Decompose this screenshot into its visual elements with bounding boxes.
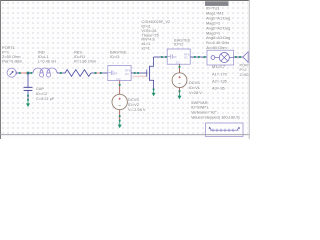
- junction node A: [27, 72, 30, 75]
- svg-text:V=28 V: V=28 V: [189, 90, 202, 95]
- biastee I2 label: [174, 37, 191, 46]
- port P2 symbol: [243, 52, 248, 63]
- svg-text:DC: DC: [184, 56, 188, 60]
- node tuner TU1 pin 2: [235, 56, 237, 58]
- wire biastee I3 DC to DCVS V2: [119, 81, 121, 95]
- svg-text:A1=-170: A1=-170: [212, 71, 228, 76]
- node DCVS V2 b: [119, 120, 121, 122]
- biastee I3 body: [108, 66, 131, 81]
- svg-text:RF: RF: [114, 71, 118, 75]
- biastee I2 body: [167, 49, 190, 64]
- svg-text:RF: RF: [173, 55, 177, 59]
- port P1 label: [2, 45, 22, 64]
- capacitor C2: [24, 87, 33, 90]
- node capacitor C2 a: [27, 95, 29, 97]
- transistor U1 label: [141, 19, 170, 50]
- resistor R1 label: [74, 49, 96, 63]
- svg-text:V=-2.98 V: V=-2.98 V: [128, 107, 146, 112]
- transistor U1 CGH40025F: [147, 57, 154, 90]
- sweep SWPVAR icon: [206, 123, 244, 137]
- node biastee I2 DC pin: [179, 66, 181, 68]
- variable list M1 A1 A2 A3: [212, 64, 228, 90]
- svg-text:ID=I2: ID=I2: [174, 41, 183, 46]
- node tuner wire: [198, 56, 200, 58]
- capacitor C2 label: [36, 86, 55, 101]
- wire resistor to biastee I3: [91, 72, 108, 74]
- svg-text:DC: DC: [125, 72, 129, 76]
- source DCVS V1: [172, 73, 187, 88]
- port P1 symbol: [7, 68, 16, 77]
- svg-text:Z=50 Ohm: Z=50 Ohm: [240, 72, 251, 77]
- node DCVS V2 a: [119, 115, 121, 117]
- wire junction to capacitor C2: [27, 73, 29, 87]
- wire (highlighted) segment before biastee I3: [97, 72, 100, 74]
- wire tuner TU1 to port P2: [234, 56, 244, 58]
- ground below capacitor C2: [26, 100, 30, 107]
- node biastee I3 DC pin: [119, 84, 121, 86]
- inductor L1 label: [38, 49, 56, 63]
- svg-text:DC: DC: [176, 60, 180, 64]
- node R1 pin 2: [95, 72, 97, 74]
- svg-text:DC: DC: [117, 77, 121, 81]
- wire biastee I2 DC to DCVS V1: [179, 64, 181, 73]
- source DCVS V2 label: [128, 97, 146, 112]
- svg-text:Pwr=0 dBm: Pwr=0 dBm: [2, 59, 22, 64]
- tuner TU1 label: [205, 1, 230, 50]
- ground at source: [152, 90, 156, 96]
- node port P2: [239, 56, 241, 58]
- node biastee I3 pin 1: [100, 72, 102, 74]
- inductor L1: [33, 68, 57, 77]
- wire biastee I3 to transistor gate: [131, 72, 146, 74]
- node capacitor C2 b: [27, 99, 29, 101]
- sweep SWPVAR label: [191, 100, 240, 119]
- wire capacitor C2 to ground: [27, 90, 29, 100]
- wire (highlighted) below gate: [133, 75, 148, 77]
- node biastee I2 pin 2: [194, 56, 196, 58]
- svg-text:A3=-95: A3=-95: [212, 86, 225, 91]
- port P2 label: [240, 62, 259, 77]
- wire biastee I2 to tuner TU1: [190, 56, 207, 58]
- ground below DCVS V1: [178, 93, 182, 100]
- wire junction to inductor: [28, 72, 33, 74]
- biastee I3 label: [110, 49, 127, 59]
- wire port P1 to node: [16, 72, 20, 74]
- source DCVS V1 label: [189, 80, 202, 95]
- node DCVS V1 minus: [179, 90, 181, 92]
- svg-text:A2=-135: A2=-135: [212, 78, 227, 83]
- node between L1 and R1: [60, 72, 62, 74]
- svg-text:C=5.21 pF: C=5.21 pF: [36, 96, 55, 101]
- wire (highlighted) node to junction: [21, 72, 28, 74]
- svg-text:Zo=50 Ohm: Zo=50 Ohm: [206, 45, 227, 50]
- wire inductor to resistor: [57, 72, 66, 74]
- ground below DCVS V2: [118, 121, 122, 128]
- node inductor pin 1: [30, 72, 32, 74]
- node drain wire b: [165, 56, 167, 58]
- svg-text:x2=1: x2=1: [141, 46, 150, 51]
- node source: [153, 89, 155, 91]
- resistor R1: [65, 70, 91, 77]
- tuner TU1 body: [207, 50, 234, 65]
- frame: [0, 0, 250, 2]
- svg-text:ID=I3: ID=I3: [110, 54, 119, 59]
- svg-text:L=0.46 nH: L=0.46 nH: [38, 59, 56, 64]
- svg-text:M1=0.7: M1=0.7: [212, 64, 225, 69]
- node drain wire a: [161, 56, 163, 58]
- svg-text:R=1.86 Ohm: R=1.86 Ohm: [74, 59, 96, 64]
- node gate: [137, 72, 139, 74]
- svg-text:Values=stepped( 160,180,5): Values=stepped( 160,180,5): [191, 114, 240, 119]
- wire DCVS V2 to ground: [119, 110, 121, 122]
- node tuner TU1 pin 1: [204, 56, 206, 58]
- wire DCVS V1 to ground: [179, 88, 181, 93]
- wire drain to biastee I2: [154, 56, 168, 58]
- node at port P1: [19, 72, 21, 74]
- node biastee I3 pin 2: [134, 72, 136, 74]
- source DCVS V2: [112, 94, 127, 109]
